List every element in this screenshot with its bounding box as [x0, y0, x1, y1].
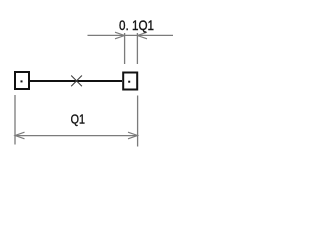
dimension 0.1Q1 line [88, 34, 174, 36]
lead wire [30, 80, 122, 82]
dimension 0.1Q1 extension line left [124, 33, 126, 64]
dimension 0.1Q1 extension line right [136, 33, 138, 64]
dimension Q1 line [15, 135, 138, 137]
dimension Q1 extension line left [14, 95, 16, 145]
terminal pad right [123, 73, 137, 90]
terminal pad left [15, 72, 29, 89]
dimension 0.1Q1 arrow left [115, 32, 125, 39]
dimension Q1 arrow left [15, 132, 25, 139]
svg-text:0. 1Q1: 0. 1Q1 [119, 17, 154, 33]
svg-text:Q1: Q1 [71, 112, 85, 127]
dimension 0.1Q1 arrow right [137, 32, 147, 39]
center mark X [71, 76, 82, 87]
dimension Q1 extension line right [137, 96, 139, 147]
dimension Q1 arrow right [128, 132, 138, 139]
